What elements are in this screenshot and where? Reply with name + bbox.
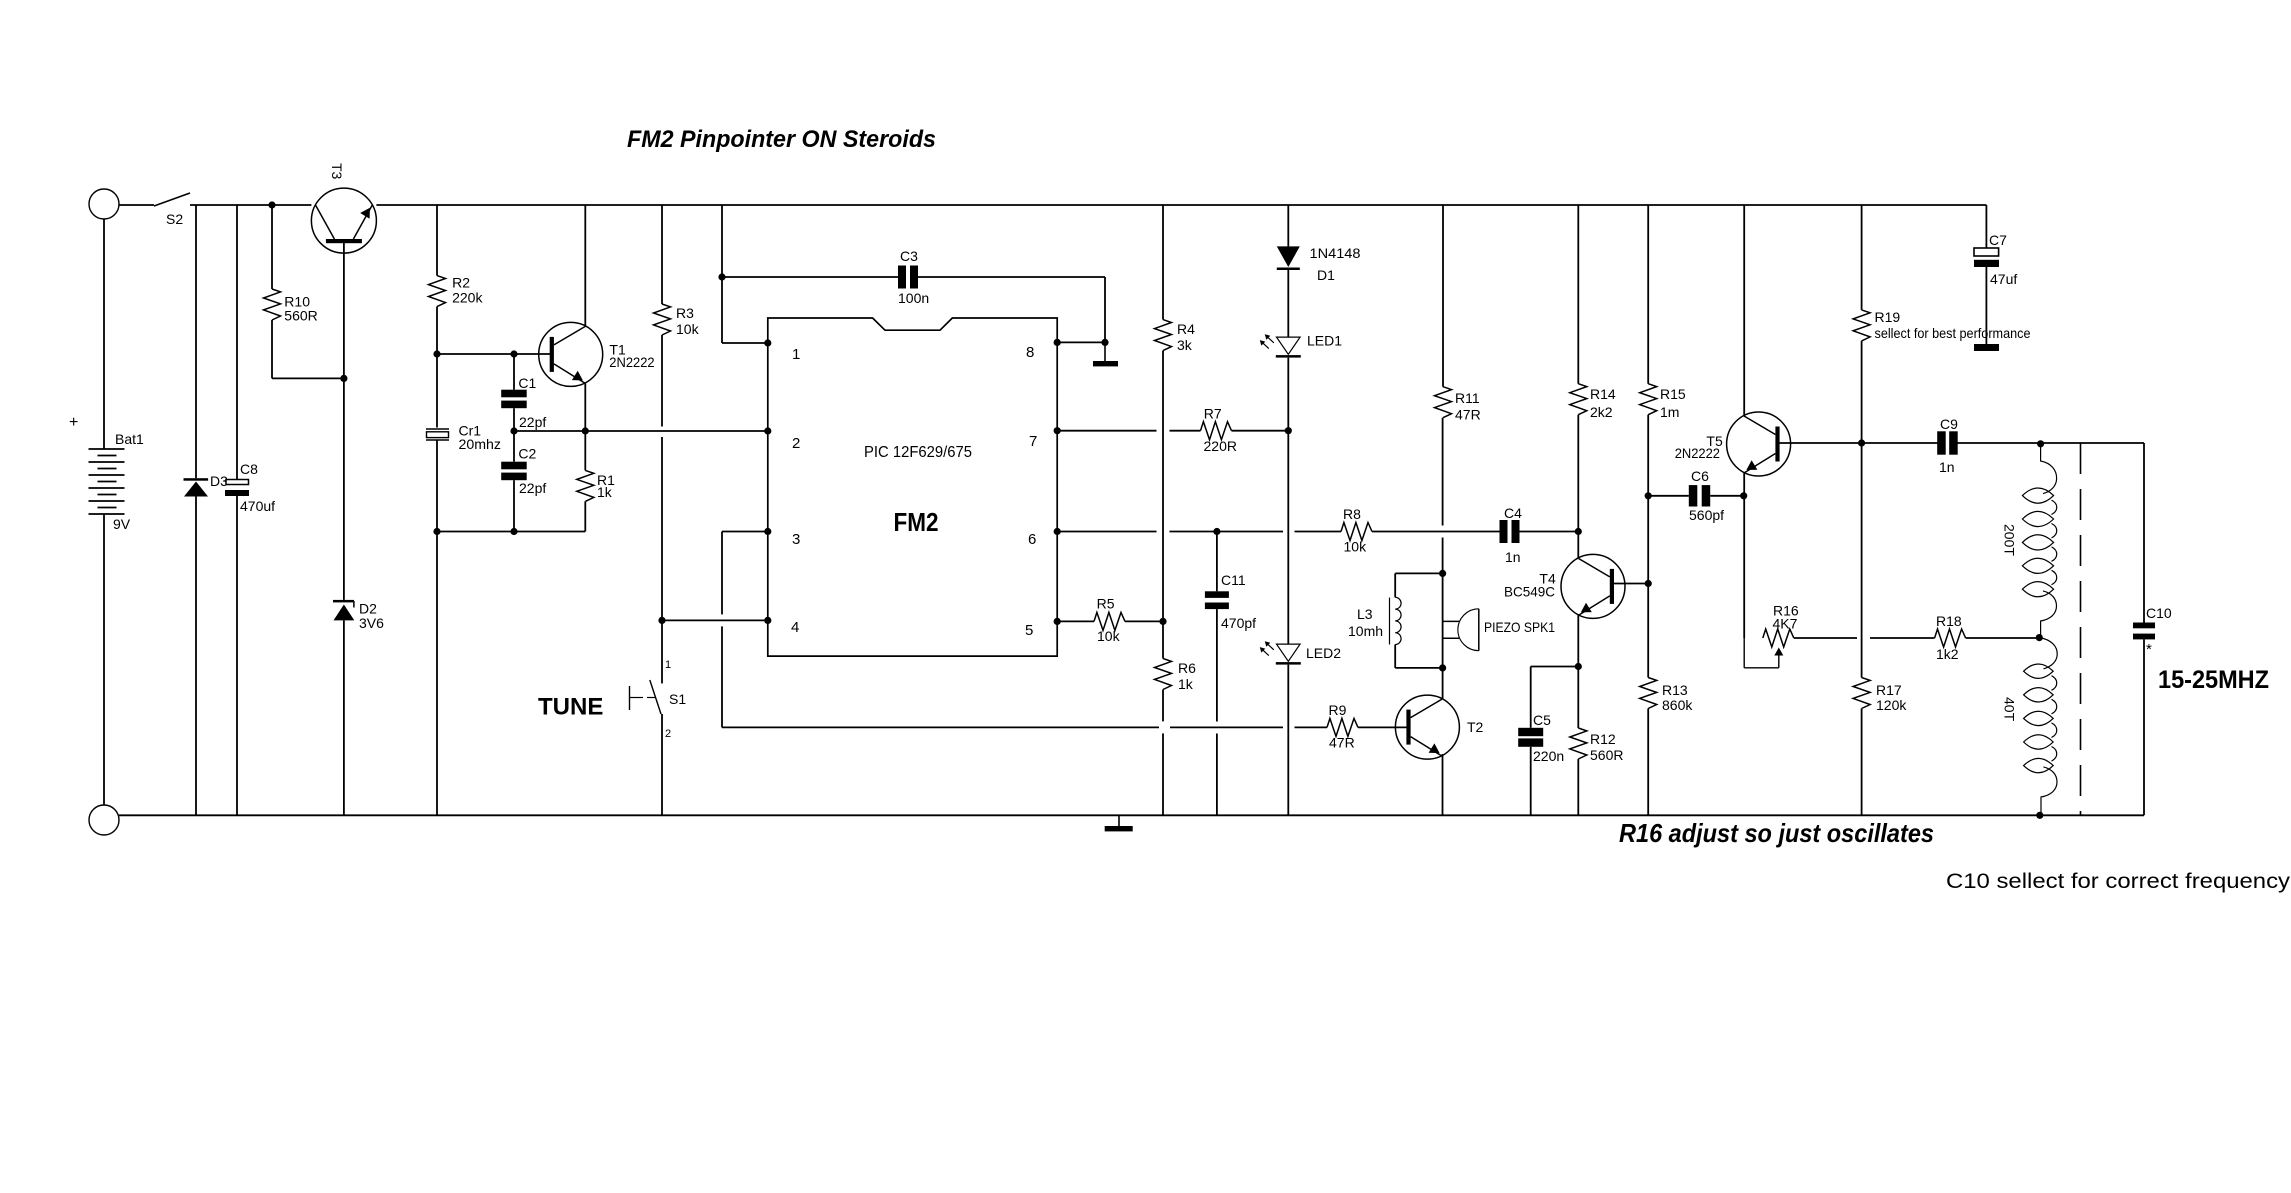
resistor R1 xyxy=(584,431,586,470)
svg-text:T3: T3 xyxy=(329,163,345,180)
wire LED1 to LED2 xyxy=(1287,358,1289,644)
wire R7 right xyxy=(1232,430,1289,432)
transistor T1 xyxy=(539,322,603,386)
svg-text:R16 adjust so just oscillates: R16 adjust so just oscillates xyxy=(1619,818,1934,848)
svg-text:4K7: 4K7 xyxy=(1773,616,1798,632)
wire C4 right xyxy=(1520,531,1579,533)
wire R19 bottom xyxy=(1861,341,1863,443)
svg-text:40T: 40T xyxy=(2002,697,2018,722)
zener diode D2 xyxy=(333,600,354,603)
wire T1 collector xyxy=(584,205,586,326)
svg-text:R5: R5 xyxy=(1097,595,1115,611)
wire Cr1 down xyxy=(436,532,438,816)
svg-text:1k2: 1k2 xyxy=(1936,646,1959,662)
resistor R18 xyxy=(1935,629,1966,647)
node T4 base xyxy=(1645,580,1652,587)
svg-text:1n: 1n xyxy=(1505,549,1521,565)
resistor R4 xyxy=(1155,320,1172,351)
svg-text:T2: T2 xyxy=(1467,719,1484,735)
capacitor C3 xyxy=(898,266,906,289)
ground symbol pin8 xyxy=(1104,342,1106,361)
resistor R17 xyxy=(1853,678,1870,709)
battery Bat1 xyxy=(89,448,125,450)
svg-text:FM2 Pinpointer ON Steroids: FM2 Pinpointer ON Steroids xyxy=(627,126,936,153)
svg-text:R15: R15 xyxy=(1660,386,1686,402)
node T3 base xyxy=(340,375,347,382)
capacitor C11 xyxy=(1216,532,1218,592)
node pin6 xyxy=(1054,528,1061,535)
svg-text:220R: 220R xyxy=(1204,438,1237,454)
wire R13 bottom xyxy=(1647,709,1649,816)
node pin3 xyxy=(764,528,771,535)
svg-text:C8: C8 xyxy=(240,461,258,477)
transistor T2 xyxy=(1395,695,1459,759)
svg-text:TUNE: TUNE xyxy=(538,694,603,721)
svg-text:C10 sellect for correct freque: C10 sellect for correct frequency xyxy=(1946,870,2291,893)
svg-text:+: + xyxy=(69,414,78,431)
wire R5 right xyxy=(1125,620,1163,622)
svg-text:4: 4 xyxy=(791,619,799,636)
diode D1 1N4148 xyxy=(1277,246,1300,267)
wire D3 top xyxy=(195,205,197,478)
wire C3 right xyxy=(918,276,1105,278)
node R5 R4 R6 xyxy=(1159,618,1166,625)
resistor R7 xyxy=(1201,422,1232,440)
transistor T4 xyxy=(1561,554,1625,618)
capacitor C10 xyxy=(2133,623,2155,629)
svg-text:R17: R17 xyxy=(1876,682,1902,698)
svg-text:1m: 1m xyxy=(1660,404,1679,420)
inductor coil 40T xyxy=(2039,638,2057,669)
svg-text:Bat1: Bat1 xyxy=(115,431,144,447)
svg-text:560R: 560R xyxy=(1590,747,1623,763)
wire T4 collector xyxy=(1577,532,1579,559)
ground symbol C7 xyxy=(1974,344,1999,351)
wire C11 bottom xyxy=(1216,609,1218,721)
node pin4 xyxy=(764,617,771,624)
svg-text:10mh: 10mh xyxy=(1348,623,1383,639)
wire pin3 net xyxy=(722,531,768,533)
svg-text:10k: 10k xyxy=(676,321,700,337)
wire T5 emitter xyxy=(1743,473,1745,496)
svg-text:1k: 1k xyxy=(1178,676,1194,692)
wire R16 right xyxy=(1794,637,1857,639)
svg-text:10k: 10k xyxy=(1097,628,1121,644)
wire R3 top xyxy=(661,205,663,304)
wire T2 emitter xyxy=(1442,754,1444,815)
wire pin8 net xyxy=(1057,341,1105,343)
wire R19 top xyxy=(1861,205,1863,310)
wire T3 base xyxy=(343,243,345,600)
wire R13 top xyxy=(1647,496,1649,678)
wire pin6 net xyxy=(1057,531,1156,533)
node C11 top xyxy=(1213,528,1220,535)
svg-text:R11: R11 xyxy=(1455,390,1480,406)
svg-text:C6: C6 xyxy=(1691,468,1709,484)
transistor T3 xyxy=(311,188,376,253)
node pin2 net C1 xyxy=(510,427,517,434)
crystal Cr1 xyxy=(426,428,449,430)
svg-text:C7: C7 xyxy=(1989,232,2007,248)
resistor R11 xyxy=(1435,387,1452,418)
svg-text:1n: 1n xyxy=(1939,459,1955,475)
wire C1 C2 mid xyxy=(513,408,515,431)
wire R11 top xyxy=(1442,205,1444,387)
switch S2 xyxy=(154,193,190,206)
svg-text:R2: R2 xyxy=(452,275,470,291)
capacitor C9 xyxy=(1937,431,1946,454)
svg-text:C4: C4 xyxy=(1504,505,1522,521)
svg-text:2: 2 xyxy=(792,435,800,452)
IC U1 PIC 12F629/675 body xyxy=(768,318,1057,656)
wire base net xyxy=(437,353,550,355)
wire R15 top xyxy=(1647,205,1649,384)
svg-text:S2: S2 xyxy=(166,211,183,227)
svg-text:3V6: 3V6 xyxy=(359,615,384,631)
svg-text:R6: R6 xyxy=(1178,660,1196,676)
svg-text:S1: S1 xyxy=(669,691,686,707)
wire C9 left xyxy=(1862,442,1938,444)
resistor R5 xyxy=(1094,612,1125,630)
svg-text:R3: R3 xyxy=(676,305,694,321)
svg-text:2N2222: 2N2222 xyxy=(609,354,654,370)
node pin8 gnd xyxy=(1101,339,1108,346)
capacitor C7 xyxy=(1974,248,1999,256)
svg-text:BC549C: BC549C xyxy=(1504,584,1555,600)
wire R2 top xyxy=(436,205,438,276)
piezo speaker SPK1 xyxy=(1443,620,1460,622)
capacitor C5 xyxy=(1530,667,1532,728)
svg-text:*: * xyxy=(2146,641,2152,658)
svg-text:C5: C5 xyxy=(1533,712,1551,728)
wire T4 base xyxy=(1614,583,1648,585)
wire top rail left xyxy=(190,204,311,206)
wire C2 bottom xyxy=(513,480,515,531)
wire R15 bottom xyxy=(1647,415,1649,496)
node C3 branch xyxy=(718,273,725,280)
capacitor C6 xyxy=(1648,495,1689,497)
wire D3 bottom xyxy=(195,497,197,816)
svg-text:D1: D1 xyxy=(1317,267,1335,283)
wire R14 bottom xyxy=(1577,415,1579,532)
svg-text:220n: 220n xyxy=(1533,748,1564,764)
wire R10 lower xyxy=(271,320,273,378)
resistor R19 xyxy=(1853,310,1870,341)
svg-text:R9: R9 xyxy=(1329,702,1347,718)
switch S1 xyxy=(650,680,661,714)
svg-text:2: 2 xyxy=(665,728,671,740)
wire R17 top xyxy=(1861,443,1863,678)
svg-text:L3: L3 xyxy=(1357,606,1373,622)
svg-text:C9: C9 xyxy=(1940,416,1958,432)
node pin7 xyxy=(1054,427,1061,434)
node C1 top xyxy=(510,350,517,357)
wire T5 base net xyxy=(1779,442,1861,444)
node R10 top xyxy=(268,201,275,208)
node C6 left xyxy=(1645,492,1652,499)
svg-text:6: 6 xyxy=(1028,531,1036,548)
wire R8 to C4 xyxy=(1372,531,1500,533)
wire top rail to switch xyxy=(119,204,154,206)
resistor R13 xyxy=(1640,678,1657,709)
wire Cr1 bottom xyxy=(436,440,438,532)
terminal post top xyxy=(89,189,119,219)
svg-text:220k: 220k xyxy=(452,290,483,306)
wire R9 to T2 base xyxy=(1358,726,1407,728)
svg-text:3k: 3k xyxy=(1177,337,1193,353)
wire C7 bottom xyxy=(1985,267,1987,344)
svg-text:1k: 1k xyxy=(597,484,613,500)
svg-text:PIEZO SPK1: PIEZO SPK1 xyxy=(1484,619,1555,635)
wire battery positive xyxy=(103,219,105,449)
wire R6 bottom xyxy=(1162,690,1164,722)
wire C8 top xyxy=(236,205,238,480)
node L3 bottom xyxy=(1439,664,1446,671)
ground symbol bottom xyxy=(1118,815,1120,826)
wire bottom left net xyxy=(437,531,585,533)
node T5 emitter C6 xyxy=(1740,492,1747,499)
terminal post bottom xyxy=(89,805,119,835)
wire pin1 vcc xyxy=(721,205,723,343)
wire tank right side xyxy=(2143,443,2145,623)
svg-text:47R: 47R xyxy=(1455,407,1481,423)
svg-text:470uf: 470uf xyxy=(240,498,275,514)
node R2 T1 base xyxy=(433,350,440,357)
resistor R8 xyxy=(1341,523,1372,541)
node R3 S1 pin4 xyxy=(658,617,665,624)
R16 wiper arrow xyxy=(1774,648,1783,656)
svg-text:10k: 10k xyxy=(1344,538,1368,554)
svg-text:560pf: 560pf xyxy=(1689,507,1724,523)
svg-text:R14: R14 xyxy=(1590,386,1616,402)
inductor L3 xyxy=(1395,572,1442,574)
node C2 bottom xyxy=(510,528,517,535)
wire pin7 net xyxy=(1057,430,1156,432)
svg-text:560R: 560R xyxy=(284,308,317,324)
svg-text:LED2: LED2 xyxy=(1306,645,1341,661)
svg-text:C11: C11 xyxy=(1221,572,1246,588)
wire R4 bottom xyxy=(1162,351,1164,622)
capacitor C1 xyxy=(513,354,515,390)
svg-text:C1: C1 xyxy=(518,375,536,391)
resistor R10 xyxy=(264,289,281,320)
svg-text:15-25MHZ: 15-25MHZ xyxy=(2158,666,2269,694)
resistor R6 xyxy=(1162,621,1164,658)
svg-text:R19: R19 xyxy=(1875,309,1901,325)
node L3 top xyxy=(1439,570,1446,577)
wire R3 bottom xyxy=(661,335,663,427)
svg-text:2N2222: 2N2222 xyxy=(1675,445,1720,461)
wire emitter to C5 xyxy=(1531,666,1579,668)
node pin1 xyxy=(764,339,771,346)
svg-text:120k: 120k xyxy=(1876,697,1907,713)
resistor R9 xyxy=(1327,718,1358,736)
node pin8 xyxy=(1054,339,1061,346)
wire R18 right xyxy=(1966,637,2040,639)
svg-text:R7: R7 xyxy=(1204,406,1222,422)
svg-text:1N4148: 1N4148 xyxy=(1310,245,1361,261)
node T1 emitter R1 xyxy=(582,427,589,434)
core dashed line xyxy=(2080,443,2082,815)
node Cr1 C2 net xyxy=(433,528,440,535)
svg-text:1: 1 xyxy=(665,659,671,671)
svg-text:8: 8 xyxy=(1026,344,1034,361)
resistor R2 xyxy=(429,276,446,307)
svg-text:FM2: FM2 xyxy=(894,507,939,537)
svg-text:22pf: 22pf xyxy=(519,480,546,496)
svg-text:47R: 47R xyxy=(1329,734,1355,750)
wire R2 bottom xyxy=(436,307,438,354)
svg-text:R12: R12 xyxy=(1590,731,1616,747)
wire S1 lower xyxy=(661,714,663,815)
svg-text:3: 3 xyxy=(792,531,800,548)
svg-text:2k2: 2k2 xyxy=(1590,404,1613,420)
wire C6 right xyxy=(1710,495,1744,497)
resistor R15 xyxy=(1640,384,1657,415)
node T4 collector xyxy=(1575,528,1582,535)
wire R17 bottom xyxy=(1861,709,1863,816)
wire C8 bottom xyxy=(236,496,238,815)
wire C3 left xyxy=(722,276,898,278)
wire C7 top xyxy=(1985,205,1987,248)
node coil tap xyxy=(2036,634,2043,641)
svg-text:5: 5 xyxy=(1025,622,1033,639)
svg-text:C2: C2 xyxy=(518,445,536,461)
svg-text:R4: R4 xyxy=(1177,321,1195,337)
wire pin2 net xyxy=(514,430,768,432)
resistor R16 xyxy=(1763,629,1794,647)
svg-text:47uf: 47uf xyxy=(1990,271,2017,287)
svg-text:R8: R8 xyxy=(1343,506,1361,522)
svg-text:LED1: LED1 xyxy=(1307,333,1342,349)
wire D1 top xyxy=(1287,205,1289,246)
wire R4 top xyxy=(1162,205,1164,320)
capacitor C8 xyxy=(226,480,249,485)
wire R10 upper xyxy=(271,205,273,289)
wire R11 bottom xyxy=(1442,418,1444,526)
svg-text:1: 1 xyxy=(792,346,800,363)
node T4 emitter xyxy=(1575,663,1582,670)
svg-text:PIC 12F629/675: PIC 12F629/675 xyxy=(864,444,972,461)
wire T4 emitter down xyxy=(1577,614,1579,666)
node pin5 xyxy=(1054,618,1061,625)
capacitor C4 xyxy=(1500,520,1508,543)
wire D2 bottom xyxy=(343,620,345,815)
node R7 LED1 xyxy=(1285,427,1292,434)
wire T5 collector xyxy=(1743,205,1745,416)
inductor coil 200T xyxy=(2041,444,2057,494)
wire T1 emitter xyxy=(584,383,586,431)
svg-text:sellect for best performance: sellect for best performance xyxy=(1875,325,2031,341)
svg-text:860k: 860k xyxy=(1662,697,1693,713)
wire D1 to LED1 xyxy=(1287,270,1289,337)
wire R14 top xyxy=(1577,205,1579,384)
wire LED2 bottom xyxy=(1287,665,1289,816)
wire bottom ground rail xyxy=(119,814,2144,816)
svg-text:C3: C3 xyxy=(900,248,918,264)
wire S1 upper xyxy=(661,620,663,683)
node T5 base R17 C9 xyxy=(1858,439,1865,446)
resistor R12 xyxy=(1577,667,1579,729)
wire tank right lower xyxy=(2143,639,2145,815)
diode D3 xyxy=(184,478,209,481)
svg-text:20mhz: 20mhz xyxy=(459,436,502,452)
LED LED1 xyxy=(1277,337,1301,354)
wire T2 collector xyxy=(1442,668,1444,699)
svg-text:200T: 200T xyxy=(2002,524,2018,556)
svg-text:R18: R18 xyxy=(1936,613,1962,629)
wire top supply rail xyxy=(376,204,1986,206)
wire Cr1 top xyxy=(436,354,438,428)
capacitor C2 xyxy=(513,431,515,462)
wire R12 bottom xyxy=(1577,759,1579,815)
wire R1 bottom xyxy=(584,501,586,531)
LED LED2 xyxy=(1277,644,1301,661)
node pin2 xyxy=(764,427,771,434)
svg-text:R13: R13 xyxy=(1662,682,1688,698)
wire battery negative xyxy=(103,514,105,805)
svg-text:7: 7 xyxy=(1029,433,1037,450)
wire pin5 net xyxy=(1057,620,1094,622)
svg-text:22pf: 22pf xyxy=(519,414,546,430)
transistor T5 xyxy=(1727,412,1791,476)
svg-text:C10: C10 xyxy=(2146,605,2172,621)
resistor R14 xyxy=(1570,384,1587,415)
wire C9 right xyxy=(1958,442,2145,444)
svg-text:9V: 9V xyxy=(113,516,131,532)
resistor R3 xyxy=(654,304,671,335)
wire R11 to L3 node xyxy=(1442,573,1444,668)
svg-text:470pf: 470pf xyxy=(1221,615,1256,631)
svg-text:100n: 100n xyxy=(898,290,929,306)
wire pin4 net xyxy=(662,619,768,621)
node coil top xyxy=(2037,440,2044,447)
node coil bottom xyxy=(2036,812,2043,819)
